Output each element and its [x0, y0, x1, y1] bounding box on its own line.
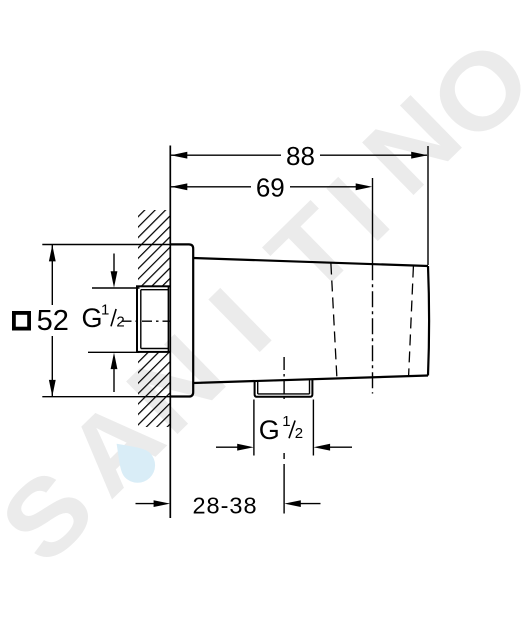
cone right face — [428, 266, 429, 376]
outlet spigot — [255, 379, 313, 397]
svg-text:2: 2 — [116, 314, 124, 331]
wall hatching — [138, 210, 170, 427]
cone top edge — [193, 258, 428, 266]
G 1/2 label bottom — [259, 413, 303, 445]
dimension 88 — [171, 141, 428, 171]
outlet centerline upper — [283, 357, 285, 399]
outlet centerline lower — [283, 453, 285, 459]
G 1/2 label left — [82, 302, 125, 333]
svg-text:2: 2 — [295, 425, 303, 442]
cone hidden line left — [331, 264, 337, 379]
cone bottom edge — [193, 376, 428, 384]
svg-text:1: 1 — [101, 302, 109, 319]
svg-text:52: 52 — [37, 305, 69, 337]
dimension 52 extension top — [42, 244, 170, 246]
69 extension line right — [372, 178, 374, 264]
nipple height arrow top — [92, 254, 140, 289]
svg-text:1: 1 — [282, 413, 290, 430]
cone hidden line right — [409, 267, 414, 376]
88 extension line right — [427, 146, 429, 265]
watermark drop — [104, 432, 162, 490]
wall surface line — [169, 146, 171, 519]
svg-text:G: G — [82, 303, 103, 333]
nipple height arrow bottom — [88, 352, 140, 392]
G1/2 nipple in wall — [137, 286, 170, 352]
cone body fill — [193, 258, 428, 383]
dimension 28-38 — [136, 493, 321, 519]
square symbol — [14, 313, 29, 329]
dimension 69 — [171, 173, 372, 203]
svg-text:88: 88 — [286, 141, 315, 171]
dimension 52 — [37, 245, 69, 397]
outlet G1/2 arrows — [216, 444, 352, 451]
dimension 52 extension bottom — [42, 396, 170, 398]
svg-text:G: G — [259, 415, 280, 445]
outlet G1/2 extension lines — [253, 400, 255, 456]
svg-text:28-38: 28-38 — [192, 493, 257, 519]
escutcheon plate — [170, 244, 193, 396]
nipple centerline — [122, 320, 182, 322]
